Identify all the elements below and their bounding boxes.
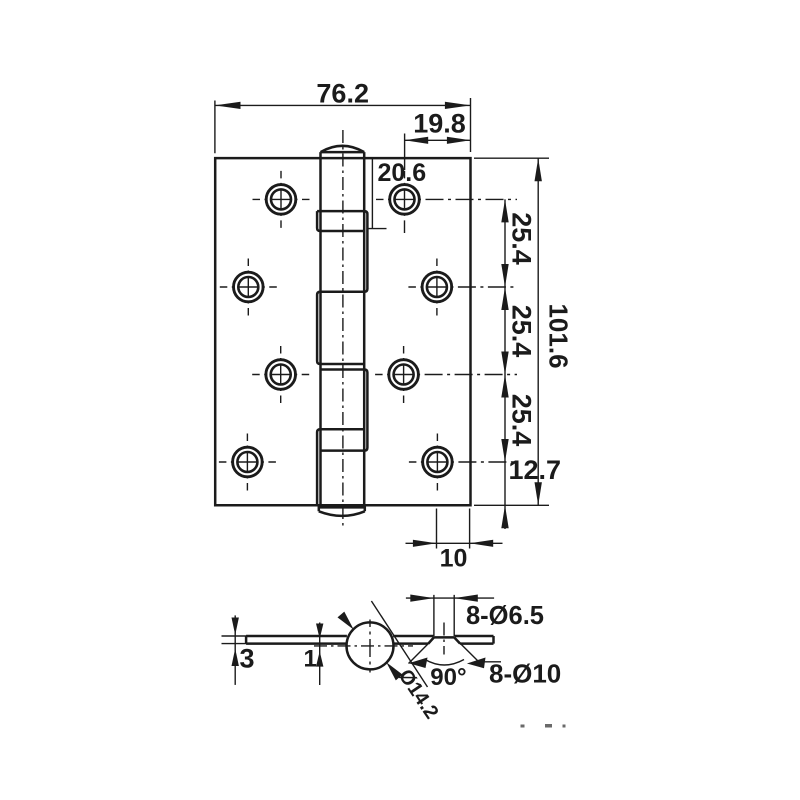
knuckle K3 sleeve (wide left)	[317, 292, 364, 364]
plate bottom edge across barrel	[321, 504, 365, 507]
svg-text:8-Ø6.5: 8-Ø6.5	[466, 602, 544, 630]
svg-text:20.6: 20.6	[378, 159, 427, 187]
hole L4	[219, 434, 276, 491]
svg-text:76.2: 76.2	[316, 78, 369, 108]
bearing collar W2 left edge joining knuckle K5	[317, 429, 364, 505]
dimension 12.7	[474, 455, 561, 529]
barrel center line	[342, 130, 344, 528]
section leaf bar right part with countersink	[393, 636, 493, 644]
svg-text:12.7: 12.7	[509, 455, 562, 485]
hole L3	[252, 346, 309, 403]
hole R1	[376, 171, 517, 233]
bearing collar W1 + knuckle K2 sleeve	[317, 211, 367, 292]
svg-text:101.6: 101.6	[544, 303, 574, 368]
dimension 8-dia6.5	[406, 595, 544, 630]
hinge right leaf outline	[364, 158, 470, 505]
hole L2	[220, 259, 277, 316]
knuckle K4 sleeve + bearing collar W2 (wide right)	[321, 370, 368, 451]
dimension 20.6	[368, 158, 426, 229]
90 degree countersink angle	[409, 637, 502, 691]
section center lines	[314, 645, 413, 647]
hinge left leaf outline	[215, 158, 320, 505]
section leaf bar left part	[246, 636, 347, 644]
dimension 101.6	[474, 158, 574, 505]
svg-text:25.4: 25.4	[507, 305, 537, 358]
svg-text:3: 3	[240, 644, 255, 674]
countersunk hole walls	[434, 595, 454, 636]
hole L1	[253, 171, 310, 228]
dimension 76.2	[215, 78, 471, 153]
svg-text:10: 10	[440, 545, 468, 573]
hole R4	[409, 434, 517, 491]
dimension 3	[222, 615, 255, 685]
dimension dia 14.2	[338, 601, 443, 723]
svg-text:8-Ø10: 8-Ø10	[489, 659, 561, 689]
dimension 19.8	[405, 108, 471, 170]
svg-text:25.4: 25.4	[507, 394, 537, 447]
dimension 10	[406, 509, 503, 573]
hole R3	[375, 346, 517, 403]
hole R2	[408, 259, 517, 316]
dimension chain 25.4 x3	[501, 199, 536, 529]
pin top cap	[321, 146, 365, 152]
plate top edge across barrel	[321, 157, 365, 160]
pin bottom cap	[319, 505, 365, 516]
barrel circle in section	[347, 622, 394, 669]
pin column	[321, 152, 365, 505]
svg-text:19.8: 19.8	[413, 108, 466, 138]
countersink cone	[428, 637, 460, 643]
stray marks bottom right	[521, 724, 566, 728]
svg-text:90°: 90°	[430, 664, 466, 691]
svg-text:25.4: 25.4	[507, 212, 537, 265]
dimension 1	[304, 623, 324, 686]
svg-text:1: 1	[304, 646, 317, 673]
